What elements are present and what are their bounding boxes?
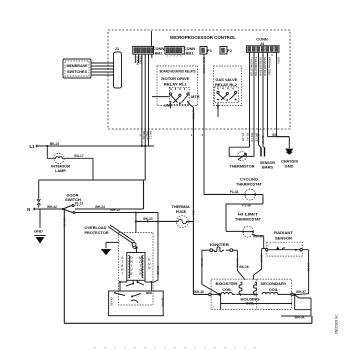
svg-text:RELAY RL2: RELAY RL2: [215, 82, 238, 87]
svg-text:P2: P2: [227, 48, 233, 53]
svg-text:BOARD MOUNTED RELAYS: BOARD MOUNTED RELAYS: [160, 69, 196, 73]
svg-text:SENSOR BAR: SENSOR BAR: [263, 57, 267, 76]
svg-text:BK-26: BK-26: [260, 255, 264, 264]
svg-text:BK-35: BK-35: [200, 259, 204, 268]
svg-text:T: T: [121, 272, 123, 276]
svg-text:BU-55: BU-55: [109, 298, 113, 307]
svg-text:SENSOR: SENSOR: [275, 236, 292, 241]
svg-text:BU-25: BU-25: [156, 266, 160, 275]
svg-text:BB2: BB2: [155, 51, 164, 56]
svg-text:P1-13: P1-13: [75, 202, 84, 206]
svg-text:GAS VALVE: GAS VALVE: [202, 57, 206, 73]
svg-text:BK-36: BK-36: [239, 265, 248, 269]
svg-text:BK: BK: [191, 211, 195, 215]
svg-text:BU-18: BU-18: [261, 136, 265, 145]
svg-text:BU-16: BU-16: [257, 134, 261, 143]
svg-text:THERMOSTAT: THERMOSTAT: [235, 217, 262, 222]
svg-text:MICROPROCESSOR CONTROL: MICROPROCESSOR CONTROL: [170, 35, 236, 40]
svg-text:THERMOSTAT: THERMOSTAT: [236, 182, 263, 187]
svg-text:WH-30: WH-30: [253, 235, 263, 239]
svg-text:IGNITER: IGNITER: [210, 242, 229, 247]
svg-text:SECONDARY: SECONDARY: [261, 281, 287, 286]
svg-text:WH-34: WH-34: [295, 315, 305, 319]
svg-text:THERMISTOR: THERMISTOR: [254, 57, 258, 76]
svg-text:BU-10: BU-10: [250, 133, 254, 142]
svg-text:SWITCH: SWITCH: [65, 197, 81, 202]
svg-text:N: N: [27, 207, 30, 212]
svg-text:BARS: BARS: [262, 165, 273, 170]
svg-text:16022903 SC: 16022903 SC: [335, 314, 339, 334]
svg-text:BU: BU: [216, 105, 220, 109]
svg-text:P1: P1: [207, 48, 213, 53]
svg-text:GND: GND: [285, 163, 294, 168]
svg-text:BK-17: BK-17: [149, 131, 153, 140]
svg-text:WH-37: WH-37: [296, 290, 306, 294]
svg-text:MEMBRANE: MEMBRANE: [67, 63, 88, 68]
svg-text:BU-17: BU-17: [74, 154, 83, 158]
svg-text:P1-44: P1-44: [230, 190, 239, 194]
svg-text:P1-45: P1-45: [241, 133, 245, 141]
svg-text:RELAY RL1: RELAY RL1: [164, 81, 188, 86]
svg-text:BROWN GND: BROWN GND: [268, 57, 272, 75]
svg-text:L1: L1: [29, 144, 35, 149]
svg-text:WH-42: WH-42: [47, 205, 57, 209]
svg-text:BK-19: BK-19: [50, 142, 59, 146]
svg-text:WH-15: WH-15: [110, 208, 120, 212]
svg-text:GN: GN: [272, 133, 277, 137]
svg-text:RADIANT: RADIANT: [274, 230, 294, 235]
svg-text:FUSE: FUSE: [176, 209, 187, 214]
svg-text:COIL: COIL: [269, 287, 279, 292]
svg-text:COIL: COIL: [222, 287, 232, 292]
svg-text:BK-30: BK-30: [143, 217, 152, 221]
svg-text:BK-29: BK-29: [307, 263, 311, 272]
svg-text:MTR: MTR: [191, 94, 200, 99]
svg-text:SENSOR BAR: SENSOR BAR: [259, 57, 263, 76]
svg-text:PROTECTOR: PROTECTOR: [85, 230, 109, 235]
svg-text:P1-36: P1-36: [242, 204, 251, 208]
svg-text:W RED: W RED: [191, 110, 195, 121]
svg-text:WH-36: WH-36: [194, 290, 204, 294]
svg-text:THERMISTOR: THERMISTOR: [230, 163, 255, 168]
svg-text:P1-41: P1-41: [246, 133, 250, 141]
svg-text:SWITCHES: SWITCHES: [67, 69, 87, 74]
svg-text:LAMP: LAMP: [55, 168, 66, 173]
svg-text:WH-40: WH-40: [161, 298, 165, 308]
svg-text:BOOSTER: BOOSTER: [216, 281, 238, 286]
svg-text:THERMISTOR: THERMISTOR: [250, 57, 254, 76]
svg-text:WH-24: WH-24: [95, 205, 105, 209]
svg-text:SENS: SENS: [139, 56, 143, 64]
svg-text:GND: GND: [34, 229, 43, 234]
svg-text:WH-41: WH-41: [62, 218, 66, 228]
svg-text:BB1: BB1: [186, 51, 195, 56]
svg-text:GRN: GRN: [277, 57, 281, 63]
